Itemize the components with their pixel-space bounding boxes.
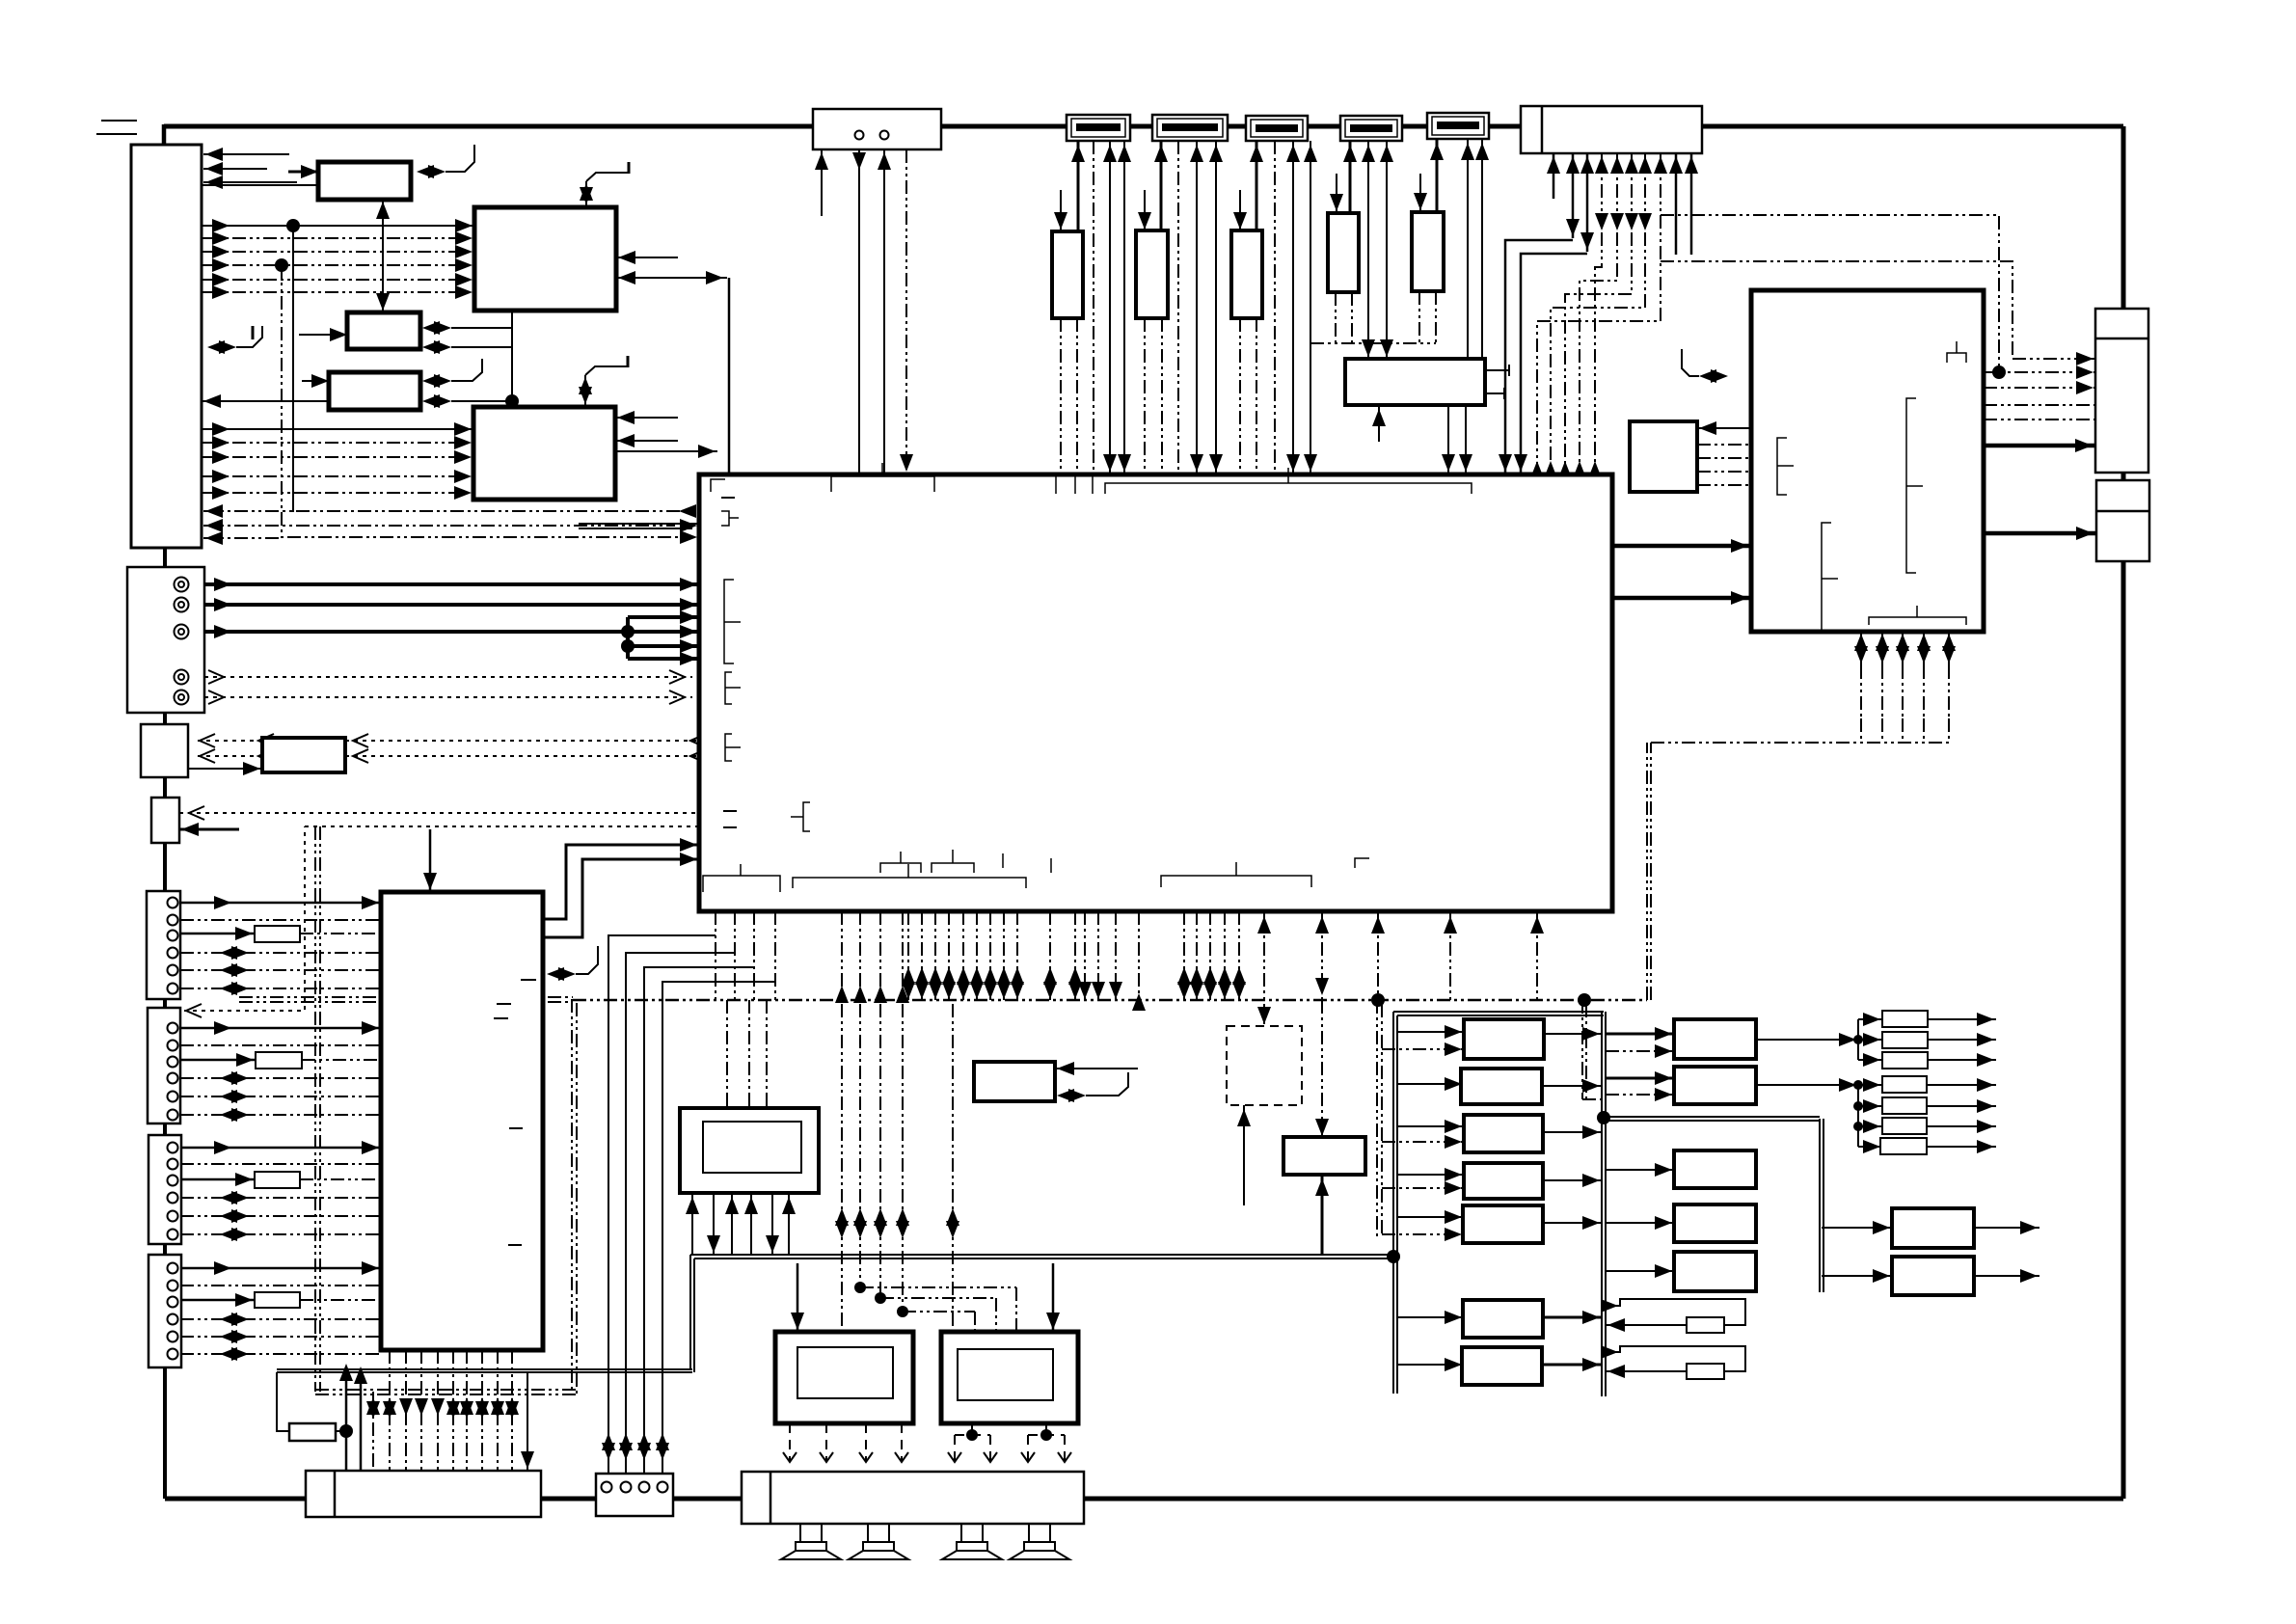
- speaker FL: [800, 1524, 822, 1542]
- tuner unit 1: [1052, 231, 1083, 318]
- wire bus to audio amp: [1315, 1000, 1329, 1138]
- speaker RL: [961, 1524, 983, 1542]
- output buffer 1: [1892, 1208, 1974, 1248]
- wire CVBS 3: [204, 625, 699, 638]
- output buffer 2: [1892, 1257, 1974, 1295]
- display drive lines: [720, 1000, 773, 1129]
- wire stub out 1: [203, 148, 289, 161]
- line amp 5: [1463, 1205, 1543, 1243]
- wire under clock box 4: [900, 149, 913, 472]
- wire input B1: [615, 411, 678, 424]
- IF bidir pair lower: [422, 340, 512, 354]
- audio lines to amps: [835, 1004, 1016, 1332]
- amp2 feeds: [1397, 1077, 1464, 1091]
- CRT socket upper: [2095, 309, 2148, 473]
- main IC right bracket: [1580, 487, 1601, 501]
- sq in: [1697, 421, 1751, 435]
- connector1 rows: [180, 896, 381, 995]
- tuner unit 3: [1231, 230, 1262, 318]
- wire box3 to tall connector: [202, 394, 329, 408]
- amp6 out: [1543, 1311, 1602, 1324]
- deflection dash collect: [1651, 742, 1949, 744]
- wire A out to main IC: [728, 278, 731, 474]
- ctrl dash stair 4: [1551, 232, 1645, 474]
- wire out dashed 1b: [345, 734, 706, 747]
- wire input B2: [615, 434, 678, 447]
- ctrl dash stair 5: [1537, 215, 1661, 474]
- bus right drop: [1647, 743, 1651, 1000]
- main IC bracket bottom: [793, 878, 1026, 888]
- wire under clock box 1: [815, 149, 828, 216]
- main IC tickb: [1002, 853, 1004, 868]
- wire up into reset box: [1237, 1105, 1251, 1205]
- T2 out: [1974, 1269, 2039, 1283]
- buffer 1: [255, 926, 300, 942]
- wire up into audio amp: [1315, 1175, 1329, 1254]
- tuner unit 2: [1136, 230, 1168, 318]
- amp2 out: [1542, 1079, 1602, 1093]
- IC bottom-left fan: [608, 935, 775, 1474]
- wire dotted loop top: [305, 826, 699, 827]
- amp1 out: [1544, 1027, 1602, 1041]
- bidir stub mid: [547, 946, 598, 981]
- demod to main IC: [1442, 405, 1472, 474]
- option connector 3: [149, 1135, 181, 1244]
- amp1 feeds: [1382, 1025, 1464, 1056]
- S1-3 outputs: [1928, 1013, 1996, 1067]
- amp4 out: [1543, 1174, 1602, 1187]
- bus tall-connector to video processor A: [202, 219, 474, 299]
- wire input A2: [616, 271, 727, 284]
- display lower lines: [686, 1193, 796, 1255]
- Y/C separator: [262, 738, 345, 772]
- antenna jack 3: [1246, 116, 1308, 141]
- main IC bracket right: [1355, 858, 1369, 868]
- main IC pin pair in: [579, 519, 699, 532]
- ctrl solid drop 1: [1505, 240, 1573, 474]
- ctrl dash stair 1: [1595, 232, 1602, 474]
- tuner to IF link: [376, 200, 390, 312]
- main IC bracket left2: [725, 672, 732, 704]
- R5 feed: [1606, 1264, 1674, 1278]
- wire audio in right: [1751, 572, 1832, 585]
- amp R outputs: [948, 1423, 1071, 1462]
- tuner pack 4 wiring: [1330, 141, 1393, 359]
- sub CPU mark3: [509, 1127, 523, 1129]
- tuner pack 3 wiring: [1233, 141, 1317, 474]
- antenna stub: [96, 133, 137, 135]
- main IC bracket left1: [724, 580, 734, 663]
- main IC pin bracket top1: [831, 476, 934, 492]
- wire bus to reset box: [1257, 911, 1271, 1026]
- wire narrow dashed: [179, 806, 699, 820]
- wire boxA to boxB: [188, 762, 262, 775]
- feedback loop 2: [1601, 1345, 1745, 1378]
- wire video out 2: [1612, 591, 1751, 605]
- wire down into sub CPU: [423, 829, 437, 892]
- wire audio dashed 2: [204, 690, 692, 704]
- speaker connector: [742, 1472, 1084, 1524]
- key bus corner: [690, 1255, 694, 1372]
- frame right edge: [2121, 126, 2126, 1499]
- driver 4: [1674, 1204, 1756, 1242]
- R1 dash feed: [1606, 1044, 1674, 1058]
- wire stub out 2: [203, 162, 267, 176]
- wire thick up A: [543, 838, 699, 919]
- ctrl dash stair 2: [1580, 232, 1617, 474]
- antenna jack 2: [1152, 115, 1228, 141]
- amp3 out: [1543, 1125, 1602, 1139]
- wire tall connector to tuner: [202, 184, 318, 186]
- deflection dash drop 0: [1860, 718, 1862, 743]
- reset IC: [1227, 1026, 1302, 1105]
- wire out dashed 2: [198, 749, 274, 763]
- amp L outputs: [783, 1423, 908, 1462]
- R2 output fan: [1756, 1078, 1882, 1153]
- wire stub: [163, 775, 167, 799]
- T2 feed: [1822, 1269, 1892, 1283]
- bus dash pair left vertical: [572, 999, 577, 1394]
- R2 dash feed: [1606, 1088, 1674, 1101]
- CRT IC bracket 5: [1869, 617, 1966, 625]
- wire bus up arrows: [339, 1364, 367, 1471]
- deflection dash drop 1: [1881, 718, 1883, 743]
- demod box outputs: [1485, 365, 1509, 399]
- wire dash-dot drop to main IC: [282, 265, 697, 544]
- amp7 feeds: [1397, 1358, 1464, 1371]
- amp5 feeds: [1382, 1210, 1464, 1241]
- wire thick up B: [543, 853, 699, 937]
- video chroma IC B: [473, 407, 615, 500]
- buffer 2: [256, 1052, 302, 1069]
- main IC bracket b3: [932, 863, 974, 873]
- wire into IF: [299, 328, 347, 341]
- key bus junction: [1387, 1250, 1400, 1263]
- line amp 6: [1463, 1300, 1543, 1338]
- bus dash pair bottom: [315, 1390, 576, 1394]
- amp6 feeds: [1397, 1311, 1464, 1324]
- wire CVBS 1: [204, 578, 699, 591]
- main IC bracket b2: [880, 863, 921, 873]
- speaker FR: [868, 1524, 889, 1542]
- ctrl dash long B: [1661, 261, 2012, 359]
- splitter 7: [1880, 1138, 1927, 1154]
- pin dash right5: [1984, 419, 2095, 420]
- wire stub out 3: [203, 176, 297, 189]
- system control wiring: [1547, 153, 1698, 255]
- dotted loop: [184, 826, 305, 1011]
- deflection dash drop 2: [1902, 718, 1904, 743]
- tall connector bidir pair: [207, 326, 262, 354]
- fan bidir arrows: [602, 1433, 669, 1460]
- main IC tick marks: [1056, 476, 1093, 494]
- audio decoder: [329, 372, 420, 410]
- wire CVBS 2: [204, 598, 699, 611]
- demod collect dash line: [1310, 342, 1436, 344]
- ctrl solid drop 1 arrow: [1499, 454, 1512, 472]
- driver 2: [1674, 1067, 1756, 1104]
- main IC bracket small: [721, 511, 729, 526]
- matrix bus dot: [1597, 1111, 1610, 1124]
- IC bottom matrix feed: [1371, 911, 1385, 1000]
- S4-7 outputs: [1927, 1078, 1996, 1153]
- tuner I2C pair: [417, 145, 474, 178]
- wire into OSD: [1055, 1062, 1138, 1075]
- IF bidir pair upper: [422, 321, 512, 335]
- key bus horizontal: [277, 1369, 692, 1372]
- audio box3 pair upper: [422, 359, 482, 388]
- frame top line: [164, 124, 2123, 129]
- amp L big arrow: [791, 1263, 804, 1332]
- ctrl dash long A: [1661, 215, 1999, 372]
- power line solid: [521, 1371, 534, 1471]
- power amp right: [941, 1332, 1078, 1423]
- fuse resistor: [289, 1423, 336, 1441]
- speaker RR: [1029, 1524, 1050, 1542]
- IC bottom updown pin: [1315, 911, 1329, 1000]
- line amp 1: [1464, 1019, 1544, 1059]
- power connector dash lines: [373, 1350, 512, 1471]
- matrix dash drop right: [1582, 1000, 1602, 1099]
- CRT drive IC: [1751, 290, 1984, 632]
- amp7 out: [1542, 1358, 1602, 1371]
- stair arrows: [1530, 461, 1602, 478]
- main IC small dash1: [721, 497, 735, 499]
- feedback resistor 1: [1687, 1317, 1724, 1333]
- matrix frame top: [1393, 1012, 1604, 1015]
- sub CPU mark1: [497, 1003, 511, 1005]
- dotted loop arrow: [186, 1004, 202, 1017]
- fluorescent display: [680, 1108, 819, 1193]
- audio power amp: [1283, 1137, 1365, 1175]
- antenna jack 4: [1340, 116, 1402, 141]
- pin dash right1: [2012, 352, 2095, 365]
- IF amp: [347, 312, 420, 349]
- R3 feed: [1606, 1163, 1674, 1177]
- tuner: [318, 162, 411, 200]
- line amp 3: [1464, 1115, 1543, 1152]
- clock box: [813, 109, 941, 149]
- R1 feed: [1606, 1027, 1674, 1041]
- wire stub: [163, 1242, 167, 1257]
- ctrl solid drop 2: [1521, 254, 1587, 474]
- video chroma IC A: [474, 207, 616, 311]
- pin dash right4: [1984, 404, 2095, 406]
- wire video out 1: [1612, 539, 1751, 553]
- bus dash pair vertical: [315, 826, 320, 1392]
- option connector 2: [148, 1008, 180, 1123]
- R4 feed: [1606, 1216, 1674, 1230]
- main IC pin tick2: [1287, 468, 1289, 483]
- main IC bracket bl: [703, 876, 780, 892]
- junction: [505, 394, 519, 408]
- connector2 rows: [180, 1021, 381, 1122]
- pin dash right3: [1984, 381, 2095, 394]
- antenna jack 1: [1067, 115, 1130, 141]
- bus junction A: [1371, 993, 1385, 1007]
- clock stub A: [580, 162, 629, 206]
- IC bottom pins audio up: [835, 911, 909, 1003]
- main IC pin bracket top2: [1105, 483, 1472, 494]
- main IC bracket mid: [803, 802, 810, 831]
- deflection outputs: [1854, 632, 1956, 718]
- sub CPU: [381, 892, 543, 1350]
- IC bottom pins group3: [1043, 911, 1146, 1011]
- clock stub B: [579, 356, 628, 406]
- CRT IC bracket 2: [1822, 523, 1831, 632]
- wire B out: [615, 445, 717, 458]
- sub CPU mark4: [508, 1244, 522, 1246]
- splitter 6: [1882, 1118, 1927, 1134]
- EEPROM: [1630, 421, 1697, 492]
- main IC bracket b4: [1161, 876, 1311, 887]
- wire stub: [163, 841, 167, 893]
- CRT IC bracket 1: [1777, 438, 1787, 495]
- option connector 1: [147, 891, 180, 999]
- ctrl solid drop 2 arrow: [1514, 454, 1527, 472]
- wire stub: [163, 711, 167, 726]
- R2 feed: [1606, 1071, 1674, 1085]
- sq dash pins: [1697, 445, 1751, 485]
- splitter 3: [1882, 1052, 1928, 1069]
- IC bottom up pin 2: [1530, 911, 1544, 1000]
- IC bottom up pin long: [1444, 911, 1457, 1000]
- amp R big arrow: [1046, 1263, 1060, 1332]
- ctrl dash stair 3: [1565, 232, 1632, 474]
- matrix dash feed vertical: [1377, 1000, 1382, 1237]
- matrix right drop: [1606, 1117, 1823, 1292]
- OSD box: [974, 1062, 1055, 1101]
- power amp left: [775, 1332, 913, 1423]
- CRT IC I2C pair: [1682, 349, 1749, 383]
- demodulator: [1345, 359, 1485, 405]
- tuner unit 4: [1328, 213, 1359, 292]
- feedback loop 1: [1601, 1299, 1745, 1332]
- option connector 4: [149, 1255, 181, 1367]
- antenna jack 5: [1427, 113, 1489, 139]
- wire under clock box 3: [878, 141, 891, 474]
- wire into narrow box: [179, 823, 239, 836]
- buffer 3: [255, 1172, 300, 1188]
- amp3 feeds: [1382, 1120, 1464, 1149]
- feedback resistor 2: [1687, 1364, 1724, 1379]
- main IC small dash2: [723, 810, 737, 812]
- degauss connector: [596, 1474, 673, 1516]
- driver 3: [1674, 1150, 1756, 1188]
- power connector arrows: [366, 1397, 519, 1419]
- key bus to right: [690, 1255, 1393, 1259]
- frame left stub to tall connector: [162, 124, 167, 147]
- wire out dashed 2b: [345, 749, 706, 763]
- splitter 2: [1882, 1032, 1928, 1048]
- splitter 1: [1882, 1011, 1928, 1027]
- demod vertical dash: [1310, 343, 1311, 474]
- tuner unit 5: [1412, 212, 1444, 291]
- amp5 out: [1543, 1216, 1602, 1230]
- wire dash-dot return to tall connector: [203, 504, 699, 518]
- driver 1: [1674, 1019, 1756, 1059]
- wire under clock box 2: [852, 141, 866, 474]
- main IC: [699, 474, 1612, 911]
- deflection dash drop 3: [1923, 718, 1925, 743]
- control jack: [151, 798, 179, 843]
- splitter 4: [1882, 1076, 1927, 1093]
- buffer 4: [255, 1292, 300, 1308]
- splitter 5: [1882, 1097, 1927, 1114]
- tuner pack 5 wiring: [1414, 139, 1489, 359]
- OSD bidir stub: [1057, 1072, 1128, 1102]
- wire stub: [163, 1366, 167, 1499]
- wire video processor A feedback: [511, 311, 513, 407]
- wire out dashed 1: [198, 734, 274, 747]
- wire vertical from row1: [292, 226, 294, 512]
- S-video box: [141, 724, 188, 777]
- main IC corner bracket: [711, 479, 725, 492]
- antenna stub: [101, 120, 137, 122]
- power supply connector: [306, 1471, 541, 1517]
- AV input jacks: [127, 567, 204, 713]
- deflection dash drop 4: [1948, 718, 1950, 743]
- wire stub: [163, 1122, 167, 1137]
- main dash bus: [239, 997, 1647, 1002]
- matrix frame left: [1393, 1012, 1397, 1394]
- wire stub: [163, 546, 167, 569]
- bus junction B: [1578, 993, 1591, 1007]
- driver 5: [1674, 1252, 1756, 1291]
- line amp 4: [1464, 1163, 1543, 1199]
- wire loop a: [621, 610, 699, 665]
- IC bottom pins group1: [716, 911, 775, 1000]
- tall connector panel: [131, 145, 202, 548]
- wire sync thick: [1984, 527, 2096, 540]
- CRT IC bracket 3: [1906, 398, 1916, 573]
- line amp 2: [1461, 1069, 1542, 1104]
- connector3 rows: [180, 1141, 381, 1241]
- audio box3 pair lower: [422, 394, 512, 408]
- CRT socket lower: [2096, 480, 2149, 561]
- power resistor link: [277, 1372, 353, 1438]
- wire stub: [163, 997, 167, 1010]
- main IC pin tick: [881, 463, 883, 476]
- matrix frame right: [1602, 1012, 1606, 1396]
- IC bottom pins group2 bidir: [902, 911, 1024, 1000]
- sub CPU mark2: [521, 979, 536, 981]
- wire audio dashed 1: [204, 670, 692, 684]
- bus tall-connector to video processor B: [202, 422, 473, 500]
- wire RGB thick: [1984, 439, 2095, 452]
- wire input A1: [616, 251, 678, 264]
- wire into audio box3: [302, 374, 329, 388]
- line amp 7: [1462, 1347, 1542, 1385]
- T1 feed: [1822, 1221, 1892, 1234]
- wire dash-dot tall connector rows: [203, 519, 675, 545]
- main IC bracket left3: [725, 734, 732, 761]
- R1 output fan: [1756, 1013, 1882, 1067]
- IC bottom pins group4 bidir: [1177, 911, 1246, 1000]
- system control box: [1521, 106, 1702, 153]
- wire into demod box: [1372, 405, 1386, 442]
- tuner pack 2 wiring: [1138, 141, 1223, 474]
- CRT IC bracket 4: [1947, 353, 1966, 363]
- T1 out: [1974, 1221, 2039, 1234]
- pin dash right2: [1984, 365, 2095, 379]
- tuner pack 1 wiring: [1054, 141, 1131, 474]
- wire into tuner: [288, 165, 318, 178]
- frame bottom line: [165, 1497, 2123, 1502]
- amp4 feeds: [1382, 1168, 1464, 1195]
- connector4 rows: [180, 1261, 381, 1361]
